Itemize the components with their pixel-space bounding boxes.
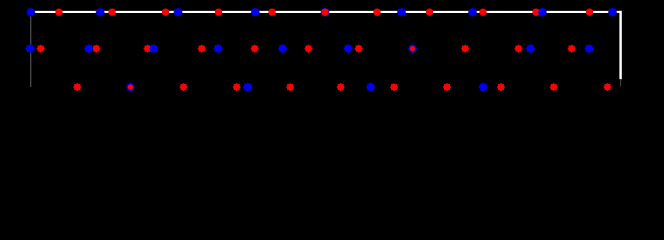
- node P19 red circle (589.5,12.15): [586, 8, 593, 15]
- wire: top white path horizontal: [31, 11, 621, 13]
- node Q6 blue (over Q5) star (153.6,48.6): [149, 44, 158, 53]
- node Q12 blue star (348.2,48.6): [344, 44, 353, 53]
- node R5 red star (236.7,87.1): [233, 83, 241, 91]
- node Q16 red star (465.2,48.6): [461, 45, 469, 53]
- wire: right gray stem tail: [620, 79, 622, 87]
- node P17 red circle (536.0,12.15): [532, 8, 539, 15]
- node P13 blue star (401.5,12.15): [397, 8, 406, 17]
- node P1 blue star (30.8,12.15): [26, 8, 35, 17]
- node Q15 red (on Q14) circle (412.5,48.6): [410, 46, 415, 51]
- node R15 red star (607.5,87.1): [604, 83, 612, 91]
- node Q5 red star (147.6,48.6): [144, 45, 152, 53]
- node P5 red circle (165.5,12.15): [162, 8, 169, 15]
- node Q20 blue star (589.2,48.6): [585, 44, 594, 53]
- node R8 red star (340.7,87.1): [337, 83, 345, 91]
- node P9 red circle (272.0,12.15): [268, 8, 275, 15]
- node P8 blue star (255.3,12.15): [251, 8, 260, 17]
- node P11 red (on P10) circle (325.0,12.15): [321, 8, 328, 15]
- node R2 blue star (130.5,87.1): [126, 83, 135, 92]
- node Q10 blue star (282.7,48.6): [278, 44, 287, 53]
- node P10 blue star (325.0,12.15): [321, 8, 330, 17]
- node Q1 blue star (30.2,48.6): [26, 44, 35, 53]
- node R1 red star (77.3,87.1): [73, 83, 81, 91]
- node R13 red star (501.0,87.1): [497, 83, 505, 91]
- node Q4 red star (96.3,48.6): [92, 45, 100, 53]
- node P12 red circle (377.0,12.15): [373, 8, 380, 15]
- node R9 blue star (370.7,87.1): [366, 83, 375, 92]
- node R12 blue star (483.2,87.1): [479, 83, 488, 92]
- node P15 blue star (472.5,12.15): [468, 8, 477, 17]
- node Q3 blue (over Q4) star (88.7,48.6): [84, 44, 93, 53]
- node Q2 red star (40.7,48.6): [37, 45, 45, 53]
- node Q7 red star (201.7,48.6): [198, 45, 206, 53]
- node R6 blue star (247.7,87.1): [243, 83, 252, 92]
- node Q8 blue star (218.0,48.6): [214, 44, 223, 53]
- node Q11 red star (308.5,48.6): [305, 45, 313, 53]
- node R4 red star (183.5,87.1): [180, 83, 188, 91]
- node P3 blue star (100.2,12.15): [96, 8, 105, 17]
- node P6 blue star (178.0,12.15): [174, 8, 183, 17]
- node R11 red star (447.0,87.1): [443, 83, 451, 91]
- node P2 red circle (59.0,12.15): [55, 8, 62, 15]
- node Q14 blue star (412.5,48.6): [408, 44, 417, 53]
- node P16 red circle (483.0,12.15): [479, 8, 486, 15]
- node R7 red star (290.2,87.1): [286, 83, 294, 91]
- node R14 red star (553.7,87.1): [550, 83, 558, 91]
- node P20 blue star (612.5,12.15): [608, 8, 617, 17]
- node P7 red circle (218.5,12.15): [215, 8, 222, 15]
- wire: right white path vertical: [619, 11, 621, 80]
- node P18 blue star (542.3,12.15): [538, 8, 547, 17]
- node P4 red circle (112.0,12.15): [108, 8, 115, 15]
- node P14 red circle (429.5,12.15): [426, 8, 433, 15]
- node R10 red star (394.0,87.1): [390, 83, 398, 91]
- node Q17 red star (518.5,48.6): [515, 45, 523, 53]
- node Q13 red star (358.7,48.6): [355, 45, 363, 53]
- node Q9 red star (254.7,48.6): [251, 45, 259, 53]
- node R3 red (on R2) circle (130.5,87.1): [128, 84, 133, 89]
- wire: left gray stem: [30, 12, 32, 87]
- node Q19 red star (571.6,48.6): [568, 45, 576, 53]
- node Q18 blue star (530.5,48.6): [526, 44, 535, 53]
